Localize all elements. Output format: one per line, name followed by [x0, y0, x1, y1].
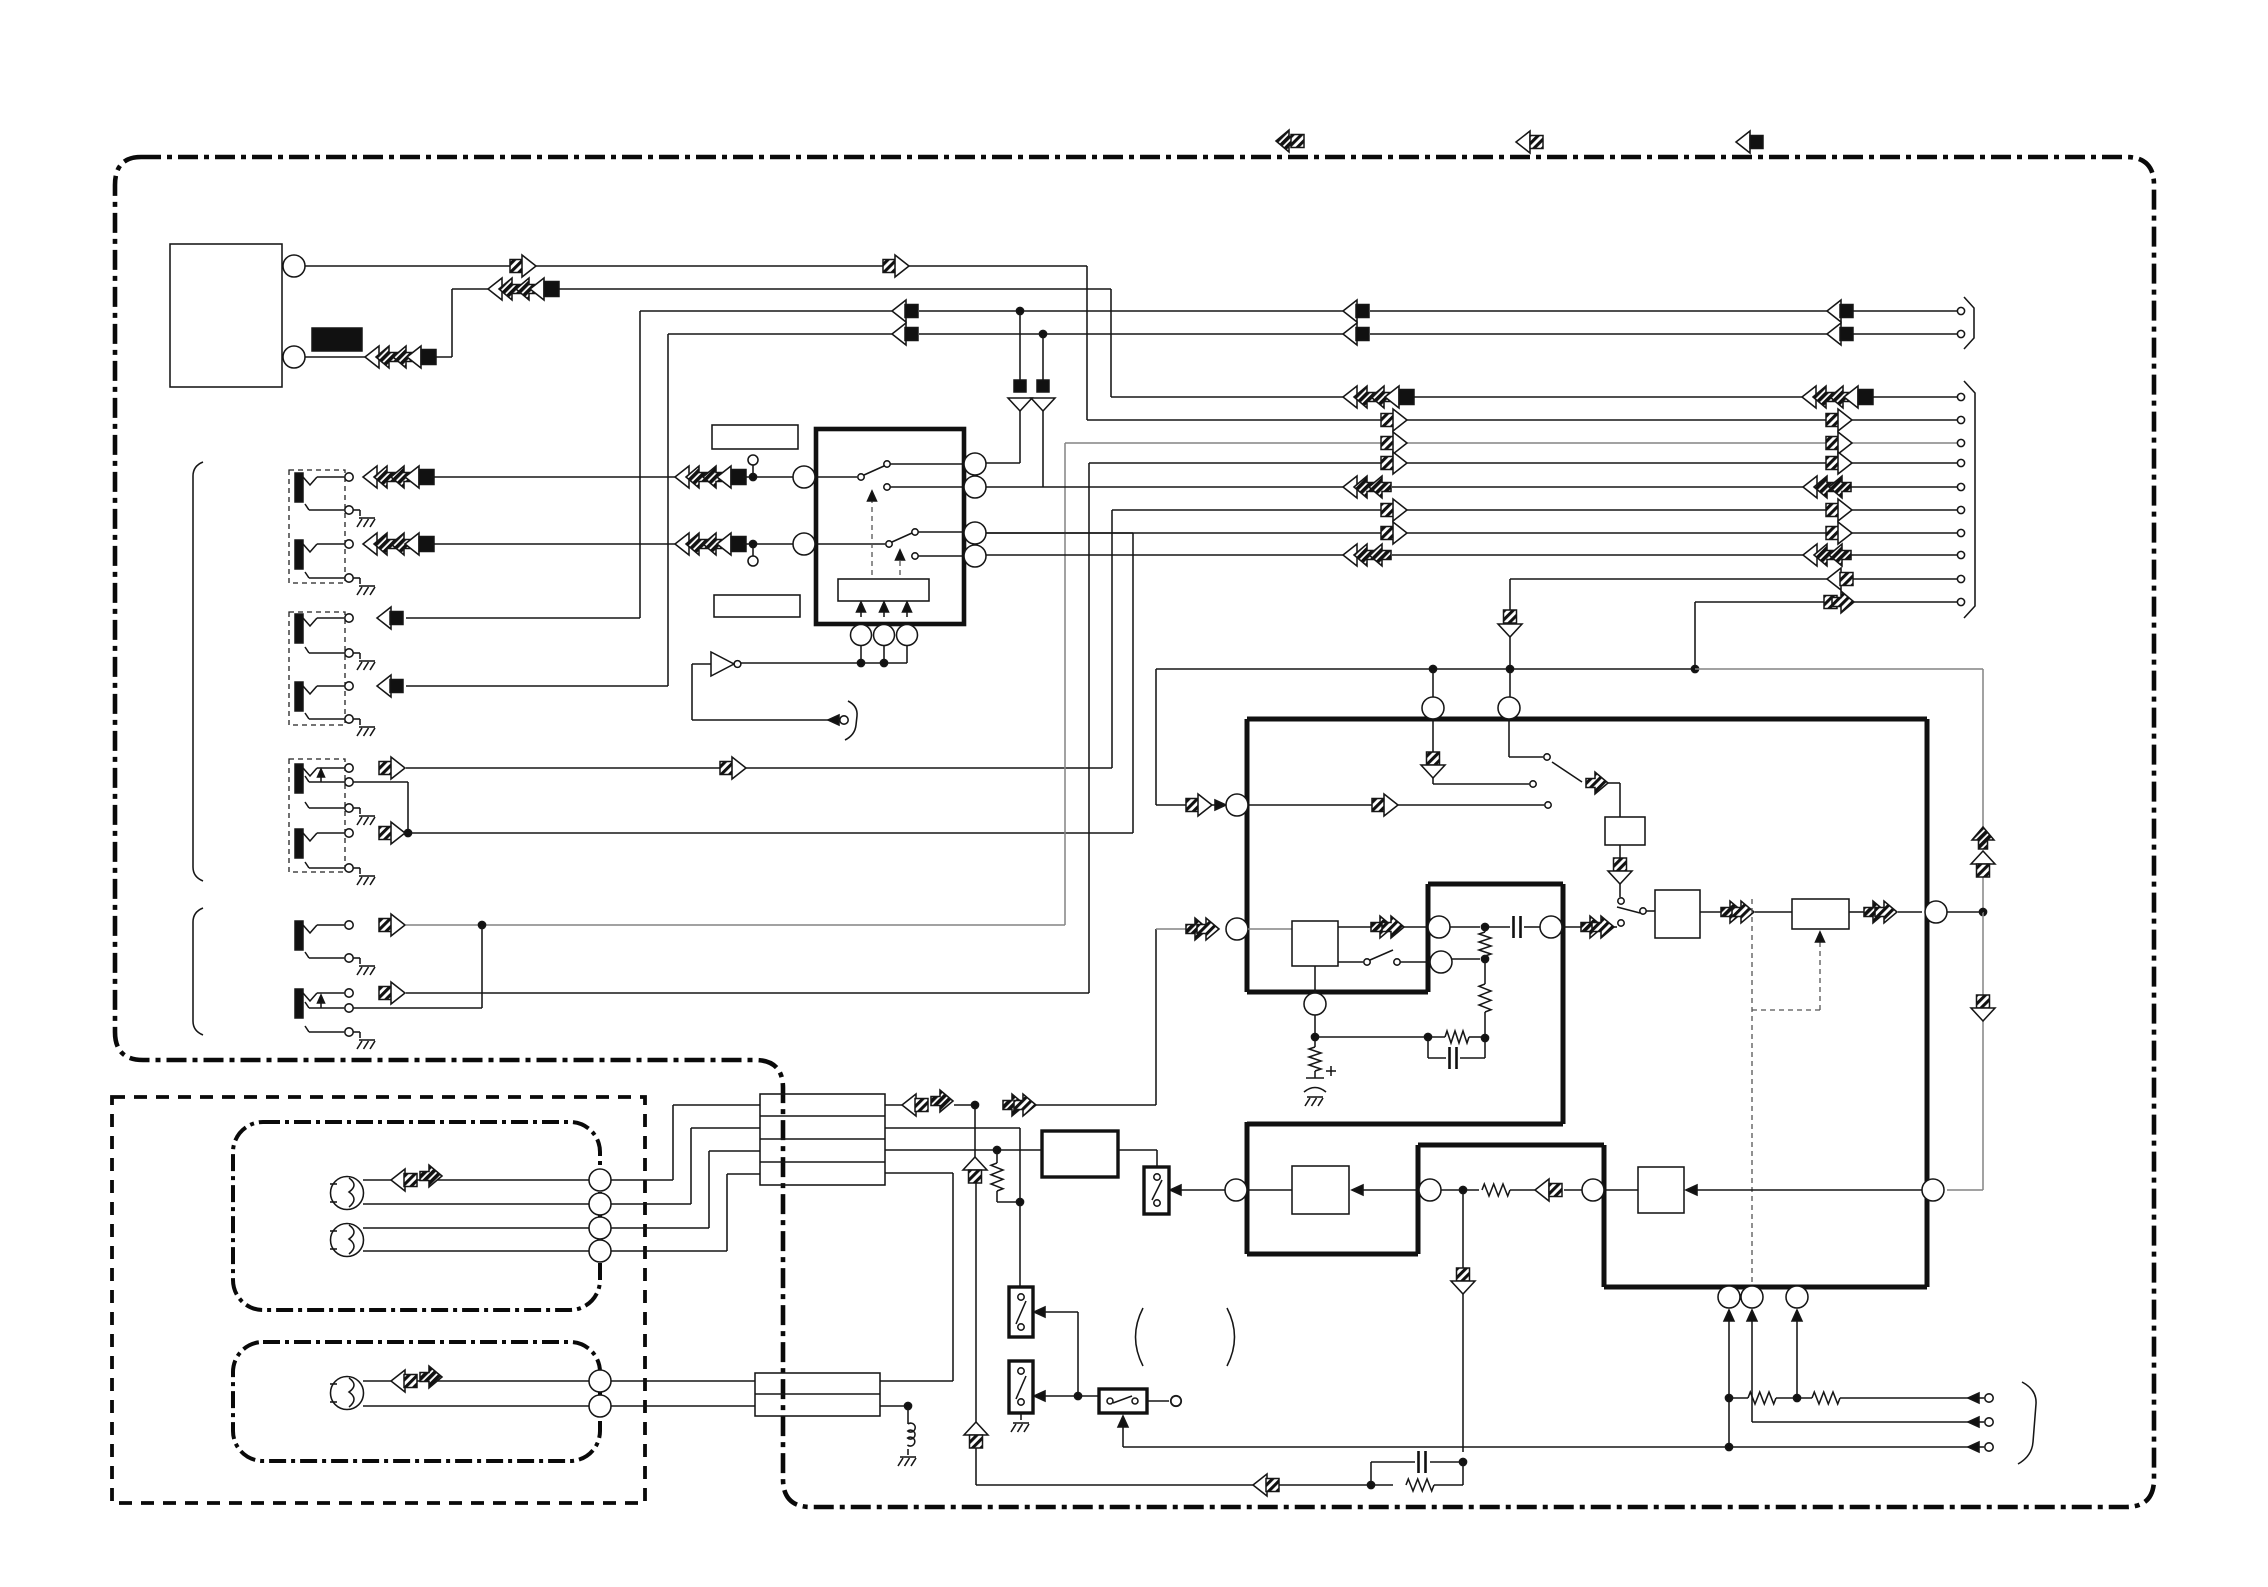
ribbon connector block: [760, 1094, 885, 1185]
outer dash-dot enclosure border: [115, 157, 2154, 1507]
connector arrow: [377, 675, 403, 697]
wire b2 row2: [611, 1402, 912, 1409]
connector arrow set: [363, 466, 434, 488]
input selector IC box: [816, 429, 964, 624]
jack J1A contact: [305, 504, 353, 514]
terminal: [1957, 506, 1964, 513]
wire J2A drop to selector: [986, 311, 1032, 463]
ground: [898, 1457, 916, 1466]
connector arrow set: [365, 346, 436, 368]
connector arrow set: [1802, 386, 1873, 408]
jack group bracket: [193, 908, 203, 1035]
connector arrow set: [1343, 544, 1391, 566]
jack J4B nc contact: [305, 995, 353, 1012]
IC block thick outline: [1247, 719, 1927, 1287]
connector arrow: [964, 1422, 988, 1448]
terminal bracket: [845, 701, 857, 740]
wire control feeds: [1724, 1310, 1802, 1451]
wire J2B net: [406, 330, 1957, 686]
connector arrow: [892, 300, 918, 322]
wire level to switch: [1608, 845, 1632, 904]
wire eq bottom port: [1314, 966, 1316, 993]
selector out circles: [964, 453, 986, 567]
wire bus2 riser: [1156, 929, 1186, 1105]
monitor switch: [1617, 907, 1655, 926]
phones jack J1 dashed group: [289, 470, 345, 583]
jack J2A contact: [305, 647, 353, 657]
wire row3 out: [885, 1149, 997, 1151]
wire selector R out net: [986, 554, 1957, 556]
wire J1B to selector: [431, 543, 675, 545]
jack J3B: [295, 829, 353, 858]
IC port: [1304, 993, 1326, 1015]
wire port to eq block: [1248, 928, 1292, 930]
wire sense line 2: [1752, 1421, 1968, 1423]
IC port: [1419, 1179, 1441, 1201]
IC port: [1922, 1179, 1944, 1201]
wire filter out: [1562, 926, 1617, 928]
connector arrow: [510, 255, 536, 277]
wire rail riser: [975, 1105, 976, 1422]
wire M1 leads: [363, 1180, 589, 1204]
connector arrow pair: [1003, 1094, 1036, 1116]
motor M3: [330, 1377, 364, 1410]
wire eq out 1: [1338, 926, 1428, 928]
ground: [353, 578, 375, 595]
jack J3A: [295, 764, 353, 793]
eq bypass switch: [1338, 950, 1430, 965]
wire selector L out net: [986, 486, 1957, 488]
resistor: [1776, 1392, 1968, 1404]
connector arrow: [1343, 323, 1369, 345]
wire top-left to terminal line: [305, 266, 1957, 420]
wire S3 sense: [1118, 1416, 1729, 1447]
mechanism dash-dot rounded box lower: [233, 1342, 600, 1461]
terminal: [1957, 439, 1964, 446]
label box: [712, 425, 798, 449]
wire sense drop: [1451, 1190, 1475, 1466]
connector arrow: [1381, 452, 1407, 474]
connector arrow: [892, 323, 918, 345]
wire control bus: [739, 646, 907, 667]
jack J4A: [295, 921, 353, 950]
level block: [1605, 817, 1645, 845]
connector arrow: [379, 914, 405, 936]
RC network: [1367, 1451, 1463, 1491]
jack J3A gnd contact: [305, 802, 353, 812]
wire S1 control: [1034, 1307, 1082, 1401]
wire mech to connector: [611, 1105, 760, 1251]
IC port: [1225, 1179, 1247, 1201]
wire b2 row1: [611, 1380, 953, 1382]
connector arrow: [1826, 452, 1852, 474]
switch S0: [1152, 1174, 1162, 1206]
bottom-left dashed enclosure: [112, 1097, 645, 1503]
wire S0 control: [1170, 1185, 1225, 1195]
ground: [1305, 1097, 1323, 1106]
trim block: [1792, 899, 1849, 929]
connector arrow: [1826, 432, 1852, 454]
ground: [353, 719, 375, 736]
wire S3 out: [1147, 1396, 1181, 1406]
wire mute in: [993, 1146, 1042, 1153]
jack J1B contact: [305, 572, 353, 582]
IC port: [1498, 697, 1520, 719]
selector control logic box: [838, 579, 929, 601]
terminal arrows: [1968, 1393, 1993, 1452]
connector arrow pair: [1721, 901, 1754, 923]
wire inverter input: [692, 664, 848, 725]
selector switch R: [815, 529, 964, 559]
wire J3 normalling: [353, 782, 412, 837]
connector arrow: [1827, 300, 1853, 322]
jack J3A nc contact: [305, 769, 353, 786]
terminal: [1957, 483, 1964, 490]
resistor: [991, 1150, 1018, 1202]
connector arrow pair: [1971, 827, 1995, 877]
wire selector input R: [743, 540, 793, 566]
terminal: [1957, 307, 1964, 314]
terminal: [1957, 575, 1964, 582]
bias network: [1304, 1015, 1485, 1092]
connector arrow pair: [1864, 901, 1897, 923]
control dashed feedback path: [1752, 899, 1825, 1297]
wire relay in: [1352, 1185, 1419, 1195]
wire bus to IC: [1156, 665, 1987, 1190]
relay block: [1292, 1166, 1349, 1214]
resistor: [1729, 1392, 1776, 1404]
selector switch L: [815, 461, 964, 490]
wire M3 leads: [363, 1381, 589, 1406]
jack J2B: [295, 682, 353, 711]
wire amp feedback: [1686, 1185, 1922, 1195]
connector arrow: [1826, 499, 1852, 521]
wire selector monitor L: [986, 532, 1133, 534]
record selector lever: [1552, 762, 1582, 782]
connector arrow: [1827, 568, 1853, 590]
wire row4 out: [885, 1173, 953, 1381]
control port circles: [851, 625, 918, 646]
wire relay drive: [1247, 1189, 1292, 1191]
ribbon connector block 2: [755, 1373, 880, 1416]
connector arrow: [1381, 432, 1407, 454]
IC port: [1925, 901, 1947, 923]
connector arrow set: [1343, 476, 1391, 498]
IC port: [1582, 1179, 1604, 1201]
inductor to ground: [907, 1406, 915, 1455]
wire sense line 3: [1729, 1446, 1968, 1448]
mechanism dash-dot rounded box upper: [233, 1122, 600, 1310]
wire J3B net: [406, 533, 1957, 833]
label box: [714, 595, 800, 617]
control dashed arrow: [896, 550, 905, 575]
ground: [353, 868, 375, 885]
wire drive net: [1441, 1184, 1582, 1196]
terminal circles group2 wires: [1956, 397, 1958, 555]
connector arrow: [1381, 409, 1407, 431]
connector arrow: [1535, 1179, 1562, 1201]
connector arrow: [379, 757, 405, 779]
connector arrow: [1381, 522, 1407, 544]
ground: [353, 958, 375, 975]
wire IC top ports: [1433, 669, 1510, 697]
selector port L: [793, 466, 815, 488]
switch S3 box: [1099, 1389, 1147, 1413]
wire amp out chain: [1700, 911, 1792, 913]
connector arrow: [1586, 772, 1608, 794]
motor M1: [330, 1177, 364, 1210]
selector port R: [793, 533, 815, 555]
wire J4A net: [406, 443, 1957, 929]
motor amp block: [1638, 1167, 1684, 1213]
eq block: [1292, 921, 1338, 966]
terminal bracket: [2018, 1382, 2036, 1464]
connector arrow: [1826, 409, 1852, 431]
terminal: [1957, 598, 1964, 605]
connector arrow: [377, 607, 403, 629]
filter port 1: [1428, 916, 1450, 938]
wire row1 out: [885, 1101, 1156, 1108]
connector arrow: [963, 1157, 987, 1183]
connector arrow: [1824, 591, 1854, 613]
filter port out: [1540, 916, 1562, 938]
wire rec select 2: [1509, 719, 1550, 760]
connector arrow: [1253, 1474, 1279, 1496]
ground: [353, 808, 375, 825]
wire selector input L: [743, 455, 793, 481]
wire to S3: [1078, 1395, 1099, 1397]
IC port: [1422, 697, 1444, 719]
switch S2: [1016, 1368, 1026, 1405]
connector arrow: [720, 757, 746, 779]
legend arrow open-black: [1736, 131, 1763, 153]
ground: [353, 1032, 375, 1049]
display black box: [312, 328, 362, 351]
ground: [353, 653, 375, 670]
wire black-box line: [305, 289, 1957, 397]
jack J2B contact: [305, 713, 353, 723]
jack J4B gnd contact: [305, 1026, 353, 1036]
connector arrow: [1826, 522, 1852, 544]
connector arrow: [883, 255, 909, 277]
wire aux terminal net: [1498, 579, 1957, 669]
connector arrow set: [1803, 476, 1851, 498]
connector arrow set: [675, 533, 746, 555]
wire into motor amp: [1604, 1189, 1638, 1191]
rec-out jack J3 dashed group: [289, 759, 345, 872]
wire S2 ground: [1020, 1413, 1022, 1420]
jack J1A: [295, 473, 353, 502]
ground: [353, 510, 375, 527]
connector arrow pair: [902, 1090, 953, 1116]
legend arrow open-hatched: [1516, 131, 1543, 153]
connector arrow pair: [391, 1366, 442, 1392]
connector arrow pair: [1371, 916, 1404, 938]
switch S0 box: [1144, 1167, 1169, 1214]
terminal: [1957, 416, 1964, 423]
jack J4B: [295, 989, 353, 1018]
wire M2 leads: [363, 1228, 589, 1251]
connector arrow: [1186, 794, 1212, 816]
wire IC input 1: [1156, 800, 1226, 810]
wire to level block: [1608, 783, 1620, 817]
connector arrow set: [1803, 544, 1851, 566]
terminal: [1957, 393, 1964, 400]
line-in jack J2 dashed group: [289, 612, 345, 725]
filter network: [1450, 916, 1540, 1042]
wire mute out: [1118, 1150, 1157, 1167]
wire IC input chain: [1248, 802, 1551, 808]
control dashed arrow: [868, 491, 877, 575]
ground: [1011, 1423, 1029, 1432]
wire J2A net: [406, 307, 1957, 618]
connector arrow set: [675, 466, 746, 488]
inverter gate: [711, 652, 741, 676]
jack J3B gnd contact: [305, 862, 353, 872]
control arrows: [857, 602, 912, 617]
wire J4B net: [406, 463, 1957, 993]
line amp block: [1655, 890, 1700, 938]
connector arrow pair: [1186, 918, 1219, 940]
connector arrow set: [1343, 386, 1414, 408]
wire trim out: [1849, 911, 1922, 913]
connector arrow: [1372, 794, 1398, 816]
terminal bracket: [1964, 297, 1974, 349]
jack J1B: [295, 540, 353, 569]
parenthesis mark: [1227, 1308, 1235, 1366]
terminal: [1957, 459, 1964, 466]
connector arrow: [379, 982, 405, 1004]
wire row2 out: [885, 1128, 1024, 1287]
connector arrow: [1827, 323, 1853, 345]
terminal: [1957, 551, 1964, 558]
terminal: [1957, 529, 1964, 536]
connector arrow set: [488, 278, 559, 300]
terminal: [1957, 330, 1964, 337]
wire J1A to selector: [431, 476, 675, 478]
wire port to bus: [1947, 911, 1983, 913]
wire J4 normalling: [353, 925, 482, 1008]
wire RC to switch rail: [976, 1446, 1371, 1485]
legend arrow hatched: [1276, 130, 1304, 152]
mech port circles: [589, 1370, 611, 1417]
tuner block: [170, 244, 305, 387]
connector arrow: [379, 822, 405, 844]
wire J3A net: [406, 510, 1957, 768]
IC port: [1226, 794, 1248, 816]
motor M2: [330, 1224, 364, 1257]
filter port 2: [1430, 951, 1452, 973]
IC bottom ports: [1718, 1286, 1808, 1308]
wire rec select 1: [1421, 719, 1536, 787]
switch S1 box: [1009, 1287, 1033, 1337]
connector arrow pair: [1581, 916, 1614, 938]
switch S2 box: [1009, 1361, 1033, 1413]
terminal bracket: [1964, 381, 1975, 618]
connector arrow pair: [391, 1165, 442, 1191]
mute block: [1042, 1131, 1118, 1177]
jack group bracket: [193, 462, 203, 881]
connector arrow set: [363, 533, 434, 555]
mech port circles: [589, 1169, 611, 1262]
connector arrow: [1971, 995, 1995, 1021]
IC port: [1226, 918, 1248, 940]
connector arrow: [1381, 499, 1407, 521]
switch S1: [1016, 1294, 1026, 1330]
switch S3: [1107, 1396, 1138, 1404]
jack J4A gnd contact: [305, 952, 353, 962]
jack J2A: [295, 614, 353, 643]
parenthesis mark: [1136, 1308, 1144, 1366]
wire power terminal net: [1695, 602, 1957, 669]
wire J2B drop to selector: [1031, 334, 1055, 487]
connector arrow: [1343, 300, 1369, 322]
